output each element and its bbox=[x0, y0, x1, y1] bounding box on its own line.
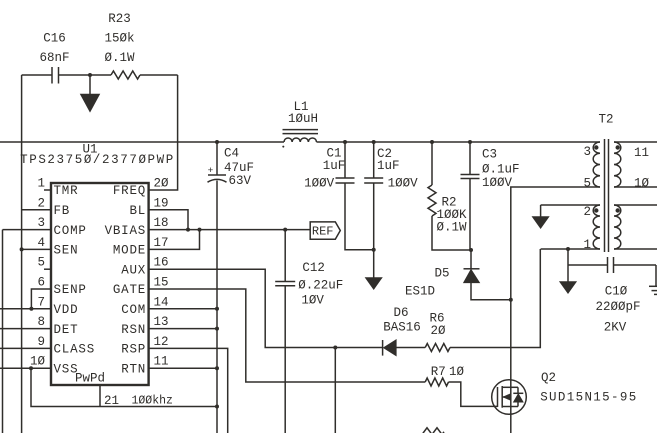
svg-text:1ØØV: 1ØØV bbox=[304, 176, 335, 190]
wire C3 bottom lead bbox=[469, 179, 471, 251]
capacitor C2 bbox=[364, 177, 383, 179]
ground symbol bbox=[655, 265, 657, 286]
node C1/C2 bottom junction bbox=[372, 248, 376, 252]
Q2 body diode bbox=[513, 394, 523, 403]
node C10/T2 pin1 junction bbox=[566, 247, 570, 251]
svg-text:12: 12 bbox=[154, 335, 169, 349]
inductor L1 bbox=[284, 138, 317, 142]
wire C16/FB/SEN vertical bbox=[21, 75, 23, 433]
wire R6 to T2 pin1 bbox=[450, 249, 540, 348]
svg-text:5: 5 bbox=[583, 177, 591, 191]
node SEN junction bbox=[20, 247, 24, 251]
pin 5 stub bbox=[44, 268, 51, 270]
wire junction to bottom edge bbox=[334, 348, 336, 433]
pin 6 SENP wire bbox=[31, 289, 51, 309]
T2 secondary upper winding bbox=[614, 142, 621, 187]
T2 pin 2 wire bbox=[541, 204, 600, 206]
svg-text:18: 18 bbox=[154, 216, 169, 230]
wire C4 bottom / COM net vertical bbox=[216, 181, 218, 433]
Q2 body diode bar bbox=[513, 392, 523, 394]
node C16/R23 junction bbox=[88, 73, 92, 77]
net arrow below C10 corner bbox=[567, 265, 569, 282]
svg-text:1: 1 bbox=[583, 238, 591, 252]
wire COMP vertical at left edge bbox=[2, 230, 4, 433]
svg-text:SUD15N15-95: SUD15N15-95 bbox=[540, 391, 637, 405]
Q2 gate bar bbox=[497, 387, 499, 407]
wire D5 cathode lead bbox=[470, 250, 472, 269]
node pad-wire junction bbox=[215, 405, 219, 409]
svg-text:D5: D5 bbox=[434, 267, 449, 281]
pin 15 GATE wire bbox=[149, 289, 426, 382]
wire C1 top lead bbox=[344, 142, 346, 178]
svg-text:REF: REF bbox=[312, 225, 334, 239]
svg-text:DET: DET bbox=[54, 323, 79, 337]
node C4 rail junction bbox=[215, 140, 219, 144]
svg-text:7: 7 bbox=[37, 295, 45, 309]
pin 9 CLASS wire bbox=[0, 347, 51, 349]
pin 7 VDD wire bbox=[0, 308, 51, 310]
T2 pin 2s wire bbox=[614, 204, 657, 206]
svg-text:RTN: RTN bbox=[121, 362, 146, 376]
net arrow on T2 pin2 bbox=[540, 205, 542, 217]
svg-text:13: 13 bbox=[154, 315, 169, 329]
svg-text:1ØØV: 1ØØV bbox=[482, 176, 513, 190]
T2 pin 10 wire bbox=[614, 186, 657, 188]
pin 13 RSN wire bbox=[149, 328, 217, 330]
pin 14 COM wire bbox=[149, 308, 217, 310]
wire VSS to pad pin21 bbox=[31, 368, 217, 406]
svg-text:SEN: SEN bbox=[54, 244, 79, 258]
svg-text:17: 17 bbox=[154, 236, 169, 250]
wire C12 top lead bbox=[284, 230, 286, 282]
T2 pin 1 wire bbox=[541, 248, 600, 250]
svg-text:15Øk: 15Øk bbox=[104, 32, 134, 46]
node C1 rail junction bbox=[343, 140, 347, 144]
svg-text:2: 2 bbox=[583, 205, 591, 219]
svg-text:VDD: VDD bbox=[54, 303, 79, 317]
resistor at bottom edge (clipped) bbox=[422, 428, 444, 433]
svg-text:16: 16 bbox=[154, 256, 169, 270]
svg-text:1: 1 bbox=[37, 177, 45, 191]
svg-text:1ØuH: 1ØuH bbox=[288, 112, 318, 126]
node C3 rail junction bbox=[468, 140, 472, 144]
pin 12 RSP wire bbox=[149, 348, 228, 433]
svg-text:Ø.22uF: Ø.22uF bbox=[298, 278, 343, 292]
wire drain vertical from T2 pin5 bbox=[511, 187, 600, 387]
node C2 rail junction bbox=[372, 140, 376, 144]
svg-text:1Ø: 1Ø bbox=[634, 177, 650, 191]
wire R2 bottom lead bbox=[432, 216, 471, 250]
wire C3 top lead bbox=[469, 142, 471, 175]
Q2 channel bar bbox=[501, 386, 503, 408]
svg-text:1ØV: 1ØV bbox=[301, 293, 324, 307]
svg-text:3: 3 bbox=[583, 145, 591, 159]
svg-text:1uF: 1uF bbox=[377, 159, 400, 173]
node RTN junction bbox=[215, 366, 219, 370]
svg-text:C12: C12 bbox=[302, 261, 325, 275]
pin 2 FB wire bbox=[22, 209, 51, 211]
svg-text:MODE: MODE bbox=[113, 244, 146, 258]
diode D5 bbox=[464, 268, 480, 270]
wire C16 left lead bbox=[22, 74, 52, 76]
Q2 drain tap bbox=[502, 386, 518, 388]
wire C4 top lead bbox=[216, 142, 218, 175]
svg-text:11: 11 bbox=[634, 146, 649, 160]
svg-text:1uF: 1uF bbox=[323, 159, 346, 173]
svg-text:T2: T2 bbox=[598, 113, 613, 127]
svg-text:Q2: Q2 bbox=[541, 371, 556, 385]
node C3/R2/D5 junction bbox=[469, 248, 473, 252]
transistor Q2 circle bbox=[492, 380, 527, 415]
svg-text:ES1D: ES1D bbox=[405, 285, 435, 299]
wire C1 bottom lead bbox=[345, 183, 374, 250]
svg-text:1ØØkhz: 1ØØkhz bbox=[132, 395, 173, 408]
node COM junction bbox=[215, 307, 219, 311]
capacitor C12 bbox=[275, 281, 295, 283]
resistor R2 bbox=[428, 185, 436, 216]
Q2 source tap bbox=[502, 406, 518, 408]
svg-text:2Ø: 2Ø bbox=[154, 177, 170, 191]
svg-text:4: 4 bbox=[37, 236, 45, 250]
svg-text:C16: C16 bbox=[43, 32, 66, 46]
svg-text:1ØØV: 1ØØV bbox=[388, 176, 419, 190]
svg-text:COM: COM bbox=[121, 303, 146, 317]
wire Q2 source to bottom bbox=[510, 407, 512, 433]
svg-text:22ØØpF: 22ØØpF bbox=[595, 300, 640, 314]
svg-text:TMR: TMR bbox=[54, 184, 79, 198]
svg-text:VSS: VSS bbox=[54, 362, 79, 376]
node AUX/RTN-net junction bbox=[333, 346, 337, 350]
wire C10 up lead bbox=[567, 249, 569, 265]
svg-text:R7: R7 bbox=[431, 365, 446, 379]
svg-text:C4: C4 bbox=[224, 147, 239, 161]
svg-text:Ø.1W: Ø.1W bbox=[437, 221, 468, 235]
wire D6 to R6 bbox=[396, 347, 425, 349]
svg-text:1Ø: 1Ø bbox=[449, 365, 465, 379]
capacitor C16 bbox=[51, 67, 53, 84]
svg-text:COMP: COMP bbox=[54, 224, 87, 238]
capacitor C4 polarized bbox=[208, 174, 226, 176]
node RSN junction bbox=[215, 327, 219, 331]
pin 11 RTN wire bbox=[149, 367, 217, 369]
Q2 bulk tap with arrow bbox=[502, 396, 511, 398]
svg-text:VBIAS: VBIAS bbox=[105, 224, 147, 238]
pin 3 COMP wire bbox=[3, 229, 52, 231]
svg-text:11: 11 bbox=[154, 355, 169, 369]
svg-text:2: 2 bbox=[37, 196, 45, 210]
pin 18 VBIAS wire to REF bbox=[149, 229, 311, 231]
wire R23 right lead bbox=[140, 74, 178, 76]
T2 pin 11 wire bbox=[614, 141, 657, 143]
T2 secondary lower winding bbox=[614, 205, 621, 249]
wire main rail left of L1 bbox=[0, 141, 284, 143]
net arrow below C1/C2 bbox=[373, 250, 375, 278]
svg-text:63V: 63V bbox=[229, 174, 252, 188]
svg-text:5: 5 bbox=[37, 256, 45, 270]
svg-text:6: 6 bbox=[37, 276, 45, 290]
op-amp/controller U1 box bbox=[51, 183, 149, 385]
svg-text:R23: R23 bbox=[108, 12, 131, 26]
wire main rail right of L1 bbox=[317, 141, 601, 143]
pin 21 pad lead bbox=[99, 385, 101, 407]
svg-text:21: 21 bbox=[104, 394, 119, 408]
T2 pin 11 polarity dot bbox=[616, 145, 620, 149]
svg-text:9: 9 bbox=[37, 335, 45, 349]
svg-text:19: 19 bbox=[154, 196, 169, 210]
svg-text:15: 15 bbox=[154, 276, 169, 290]
resistor R7 bbox=[425, 378, 448, 386]
svg-text:RSP: RSP bbox=[121, 343, 146, 357]
svg-text:FB: FB bbox=[54, 204, 71, 218]
svg-text:BAS16: BAS16 bbox=[383, 321, 421, 335]
svg-text:+: + bbox=[208, 165, 214, 176]
svg-text:47uF: 47uF bbox=[224, 161, 254, 175]
svg-text:68nF: 68nF bbox=[39, 51, 69, 65]
pin 4 SEN wire bbox=[22, 248, 51, 250]
svg-text:8: 8 bbox=[37, 315, 45, 329]
net arrow below C16/R23 node bbox=[89, 75, 91, 94]
pin 19 BL wire bbox=[149, 210, 188, 230]
wire R7 to Q2 gate bbox=[449, 382, 498, 406]
capacitor C10 bbox=[607, 257, 609, 273]
T2 pin 1s wire bbox=[614, 248, 657, 250]
T2 primary upper winding bbox=[593, 142, 600, 187]
svg-text:14: 14 bbox=[154, 295, 169, 309]
T2 pin 2s polarity dot bbox=[616, 208, 620, 212]
svg-text:3: 3 bbox=[37, 216, 45, 230]
T2 pin 2 polarity dot bbox=[594, 208, 598, 212]
svg-text:C3: C3 bbox=[482, 148, 497, 162]
svg-text:AUX: AUX bbox=[121, 263, 146, 277]
core bars of L1 bbox=[283, 129, 319, 131]
svg-text:2Ø: 2Ø bbox=[430, 324, 446, 338]
wire D5 anode lead bbox=[471, 283, 511, 300]
resistor R6 bbox=[425, 344, 450, 352]
Q2 internal drain link bbox=[510, 387, 512, 406]
pin 16 AUX wire bbox=[149, 269, 383, 347]
node R2 rail junction bbox=[430, 140, 434, 144]
wire C12 bottom lead bbox=[284, 286, 286, 433]
svg-text:Ø.1uF: Ø.1uF bbox=[482, 163, 520, 177]
T2 core bbox=[604, 139, 606, 252]
T2 primary lower winding bbox=[593, 205, 600, 249]
pin 1 TMR stub bbox=[44, 189, 51, 191]
svg-text:Ø.1W: Ø.1W bbox=[104, 51, 135, 65]
svg-text:2KV: 2KV bbox=[604, 321, 627, 335]
Q2 body diode rail bbox=[517, 387, 519, 393]
node SENP/VDD junction bbox=[29, 307, 33, 311]
net flag REF bbox=[310, 222, 340, 239]
diode D6 bbox=[382, 340, 384, 356]
wire C16 to R23 bbox=[59, 74, 112, 76]
node BL/VBIAS junction bbox=[186, 228, 190, 232]
T2 pin 3 polarity dot bbox=[594, 145, 598, 149]
node D5/drain junction bbox=[509, 298, 513, 302]
wire C10 left lead bbox=[568, 264, 608, 266]
node VBIAS/C12 junction bbox=[283, 228, 287, 232]
svg-text:PwPd: PwPd bbox=[75, 372, 105, 386]
svg-text:TPS2375Ø/2377ØPWP: TPS2375Ø/2377ØPWP bbox=[20, 153, 175, 167]
svg-text:SENP: SENP bbox=[54, 283, 87, 297]
node VSS junction bbox=[29, 366, 33, 370]
svg-text:FREQ: FREQ bbox=[113, 184, 146, 198]
node MODE/VBIAS junction bbox=[198, 228, 202, 232]
resistor R23 bbox=[111, 71, 140, 79]
wire C10 right lead bbox=[614, 264, 657, 266]
pin 10 VSS wire bbox=[0, 367, 51, 369]
svg-text:RSN: RSN bbox=[121, 323, 146, 337]
svg-text:CLASS: CLASS bbox=[54, 343, 96, 357]
wire C2 bottom lead bbox=[373, 183, 375, 250]
svg-text:C1Ø: C1Ø bbox=[605, 285, 628, 299]
wire R23 to FREQ pin20 bbox=[149, 75, 178, 190]
wire R2 top lead bbox=[431, 142, 433, 185]
capacitor C3 bbox=[461, 174, 480, 176]
pin 17 MODE wire bbox=[149, 230, 200, 250]
polarity dot L1 bbox=[282, 146, 284, 148]
pin 8 DET wire bbox=[0, 328, 51, 330]
svg-text:D6: D6 bbox=[393, 306, 408, 320]
svg-text:BL: BL bbox=[129, 204, 146, 218]
svg-text:1Ø: 1Ø bbox=[30, 355, 46, 369]
wire C2 top lead bbox=[373, 142, 375, 178]
capacitor C1 bbox=[336, 177, 355, 179]
svg-text:GATE: GATE bbox=[113, 283, 146, 297]
